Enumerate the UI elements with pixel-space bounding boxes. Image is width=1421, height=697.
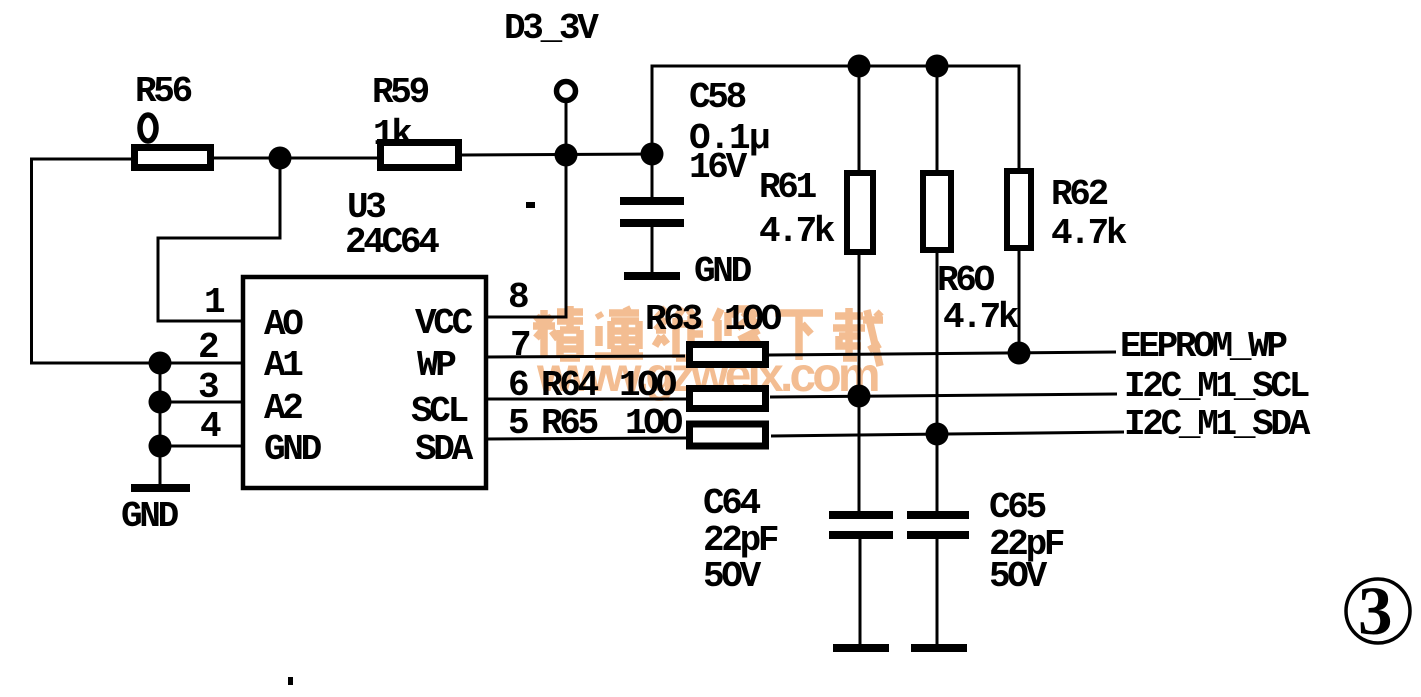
svg-text:C64: C64 xyxy=(703,483,761,524)
svg-text:GND: GND xyxy=(264,429,322,470)
resistor R60 xyxy=(923,173,951,250)
svg-text:1k: 1k xyxy=(373,114,412,155)
svg-text:D3_3V: D3_3V xyxy=(504,8,599,49)
resistor R63 xyxy=(690,345,766,365)
node R60 top xyxy=(926,55,949,78)
capacitor C65 xyxy=(907,511,969,519)
wire R61 bottom to SCL and C64 xyxy=(858,255,861,512)
terminal D3_3V xyxy=(557,82,576,101)
resistor R61 xyxy=(847,173,873,252)
svg-text:1OO: 1OO xyxy=(625,403,683,444)
svg-text:EEPROM_WP: EEPROM_WP xyxy=(1120,326,1287,367)
svg-text:AO: AO xyxy=(264,304,303,345)
wire pin 4 xyxy=(160,445,243,448)
node pin3 gnd xyxy=(149,391,172,414)
node R62-WP junction xyxy=(1008,342,1031,365)
svg-text:5OV: 5OV xyxy=(989,556,1048,597)
wire gnd vertical left xyxy=(159,363,162,486)
svg-text:4.7k: 4.7k xyxy=(1051,213,1127,254)
svg-text:2: 2 xyxy=(198,327,218,368)
svg-text:VCC: VCC xyxy=(415,303,473,344)
capacitor C58 xyxy=(651,154,654,198)
watermark char 修 xyxy=(715,309,761,360)
svg-text:GND: GND xyxy=(694,251,752,292)
svg-text:R56: R56 xyxy=(135,71,192,112)
svg-text:I2C_M1_SDA: I2C_M1_SDA xyxy=(1124,404,1311,445)
wire R59 to C58 junction xyxy=(462,154,652,155)
watermark char 下 xyxy=(775,313,823,360)
wire C58 junction up and top rail to R62 xyxy=(652,66,1019,168)
svg-text:GND: GND xyxy=(121,496,179,537)
page number circle 3 xyxy=(1346,579,1410,643)
svg-text:3: 3 xyxy=(1358,573,1393,649)
node D3_3V junction xyxy=(555,144,578,167)
node pin2 gnd xyxy=(149,352,172,375)
svg-text:C65: C65 xyxy=(989,487,1046,528)
svg-text:R65: R65 xyxy=(541,403,598,444)
wire VCC drop to pin 8 xyxy=(486,155,566,317)
svg-text:7: 7 xyxy=(510,325,530,366)
ground bar below C64 xyxy=(833,644,889,652)
wire R56 to R59 xyxy=(214,157,377,160)
resistor R62 xyxy=(1007,171,1031,248)
svg-text:R62: R62 xyxy=(1051,174,1108,215)
svg-text:5OV: 5OV xyxy=(703,556,762,597)
svg-text:R64: R64 xyxy=(541,365,599,406)
wire pin 3 xyxy=(160,401,243,404)
wire junction down to pin1 xyxy=(158,158,280,321)
resistor R64 xyxy=(690,389,766,409)
node R61 top xyxy=(848,55,871,78)
node pin4 gnd xyxy=(149,435,172,458)
svg-text:4: 4 xyxy=(200,406,221,447)
svg-text:SCL: SCL xyxy=(411,391,468,432)
svg-text:R63: R63 xyxy=(645,299,702,340)
ground bar below C58 xyxy=(624,272,680,280)
watermark char 维 xyxy=(655,308,703,358)
wire R63 to EEPROM_WP xyxy=(769,352,1116,355)
value 0 xyxy=(140,115,156,141)
svg-text:4.7k: 4.7k xyxy=(759,211,835,252)
watermark char 精 xyxy=(533,306,583,358)
ground bar left xyxy=(131,484,190,492)
wire R65 to I2C_M1_SDA xyxy=(771,432,1124,436)
wire R62 bottom to WP xyxy=(1018,251,1021,353)
resistor R65 xyxy=(690,424,766,446)
wire D3_3V terminal drop xyxy=(565,101,568,155)
svg-text:R59: R59 xyxy=(372,72,429,113)
svg-text:1: 1 xyxy=(204,282,225,323)
svg-text:R6O: R6O xyxy=(937,260,995,301)
svg-text:C58: C58 xyxy=(689,77,746,118)
svg-text:A1: A1 xyxy=(264,345,303,386)
svg-text:22pF: 22pF xyxy=(703,520,778,561)
node R61-SCL junction xyxy=(848,385,871,408)
stray speck bottom xyxy=(288,677,293,685)
svg-text:1OO: 1OO xyxy=(619,365,677,406)
svg-text:R61: R61 xyxy=(759,167,817,208)
resistor R59 xyxy=(381,143,459,168)
node junction after R56 xyxy=(269,147,292,170)
svg-text:WP: WP xyxy=(417,345,456,386)
node R60-SDA junction xyxy=(926,423,949,446)
wire left of R56 and down-left vertical to pin2 net xyxy=(32,159,244,363)
wire WP pin7 to R63 xyxy=(486,356,685,357)
wire R60 top xyxy=(936,66,939,170)
svg-text:24C64: 24C64 xyxy=(345,222,439,263)
svg-text:1OO: 1OO xyxy=(724,299,782,340)
svg-text:SDA: SDA xyxy=(415,429,474,470)
wire SCL pin6 to R64 xyxy=(486,398,686,401)
capacitor C64 xyxy=(829,511,893,519)
resistor R56 xyxy=(135,148,211,168)
watermark char 通 xyxy=(595,307,643,356)
wire R64 to I2C_M1_SCL xyxy=(770,394,1117,397)
stray speck near U3 xyxy=(526,202,535,208)
svg-text:I2C_M1_SCL: I2C_M1_SCL xyxy=(1124,366,1309,407)
svg-text:4.7k: 4.7k xyxy=(943,297,1019,338)
node C58 junction xyxy=(641,143,664,166)
watermark char 载 xyxy=(833,308,883,366)
wire SDA pin5 to R65 xyxy=(486,438,687,439)
svg-text:8: 8 xyxy=(508,277,528,318)
wire R60 bottom to SDA and C65 xyxy=(936,253,939,512)
IC U3 24C64 xyxy=(243,277,486,488)
ground bar below C65 xyxy=(911,644,967,652)
wire R61 top xyxy=(858,66,861,170)
svg-text:16V: 16V xyxy=(689,147,748,188)
svg-text:A2: A2 xyxy=(264,388,302,429)
